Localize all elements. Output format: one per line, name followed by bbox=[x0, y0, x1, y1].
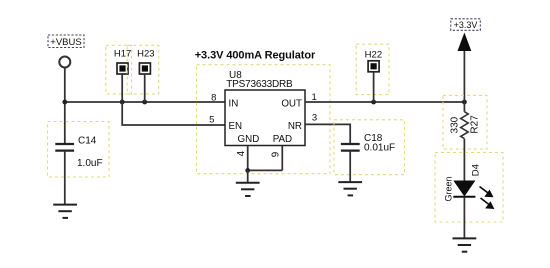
svg-text:3: 3 bbox=[312, 112, 317, 123]
capacitor C14 bbox=[48, 122, 110, 205]
svg-text:IN: IN bbox=[229, 98, 239, 109]
svg-text:Green: Green bbox=[443, 176, 453, 201]
port circle (VBUS connector) bbox=[59, 57, 70, 68]
IC U8 TPS73633DRB body bbox=[225, 90, 305, 146]
power flag +3.3V bbox=[451, 19, 481, 112]
node junction H22 bbox=[371, 100, 376, 105]
svg-text:TPS73633DRB: TPS73633DRB bbox=[226, 79, 293, 90]
svg-text:EN: EN bbox=[229, 121, 243, 132]
ground (below C18) bbox=[338, 182, 362, 195]
node junction VBUS/rail bbox=[62, 100, 67, 105]
net label +VBUS bbox=[48, 35, 84, 48]
node junction H23 bbox=[142, 100, 147, 105]
svg-text:H23: H23 bbox=[137, 48, 154, 59]
svg-text:4: 4 bbox=[236, 150, 247, 156]
svg-text:5: 5 bbox=[209, 115, 214, 126]
ground (below LED D4) bbox=[453, 238, 477, 251]
svg-text:+VBUS: +VBUS bbox=[50, 37, 81, 48]
wire NR to C18 bbox=[305, 124, 350, 144]
svg-text:+3.3V 400mA Regulator: +3.3V 400mA Regulator bbox=[195, 50, 316, 62]
wire R27 to LED bbox=[463, 139, 465, 181]
node junction +3.3V/R27 bbox=[462, 100, 467, 105]
svg-text:H17: H17 bbox=[114, 48, 131, 59]
svg-text:PAD: PAD bbox=[273, 134, 292, 145]
wire VBUS vertical to rail and down to C14 bbox=[64, 67, 66, 144]
wire EN branch bbox=[122, 102, 225, 125]
wire main input rail bbox=[65, 101, 225, 103]
wire OUT rail bbox=[305, 101, 464, 103]
svg-text:GND: GND bbox=[238, 134, 260, 145]
wire PAD pin 9 bbox=[281, 146, 283, 171]
wire GND-PAD connect bbox=[248, 169, 283, 171]
svg-text:+3.3V: +3.3V bbox=[454, 20, 478, 30]
regulator section yellow box bbox=[197, 65, 331, 174]
IC U8 reference bbox=[226, 70, 293, 90]
node junction GND bbox=[245, 168, 250, 173]
wire GND stub bbox=[247, 170, 249, 182]
svg-text:330: 330 bbox=[450, 116, 461, 133]
capacitor C18 bbox=[334, 120, 405, 182]
ground (below U8) bbox=[236, 183, 260, 196]
svg-text:0.01uF: 0.01uF bbox=[364, 142, 395, 153]
node junction H17/EN bbox=[120, 100, 125, 105]
resistor R27 bbox=[443, 95, 487, 149]
wire LED to ground bbox=[463, 197, 465, 239]
svg-text:9: 9 bbox=[271, 152, 282, 157]
svg-text:C14: C14 bbox=[78, 135, 97, 146]
svg-text:R27: R27 bbox=[469, 115, 480, 134]
LED D4 bbox=[435, 153, 503, 223]
ground (below C14) bbox=[53, 205, 77, 218]
svg-text:8: 8 bbox=[211, 93, 216, 104]
header H17 bbox=[106, 45, 132, 102]
header H23 bbox=[127, 45, 159, 102]
svg-text:NR: NR bbox=[288, 121, 302, 132]
svg-text:H22: H22 bbox=[365, 49, 382, 60]
svg-text:1.0uF: 1.0uF bbox=[77, 158, 103, 169]
svg-text:OUT: OUT bbox=[281, 98, 302, 109]
wire GND pin 4 bbox=[247, 146, 249, 171]
svg-text:D4: D4 bbox=[471, 164, 482, 176]
title text bbox=[195, 50, 316, 62]
header H22 bbox=[356, 44, 389, 102]
